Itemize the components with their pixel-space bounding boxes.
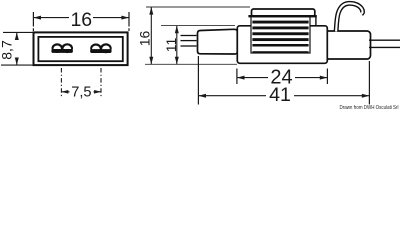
svg-text:16: 16 (70, 9, 92, 31)
svg-text:16: 16 (136, 31, 152, 47)
svg-text:7,5: 7,5 (71, 85, 91, 101)
svg-text:11: 11 (163, 38, 179, 53)
svg-text:Drawn from DWH Osculati Srl: Drawn from DWH Osculati Srl (340, 105, 399, 111)
svg-text:41: 41 (269, 84, 291, 106)
svg-text:8,7: 8,7 (0, 40, 15, 60)
